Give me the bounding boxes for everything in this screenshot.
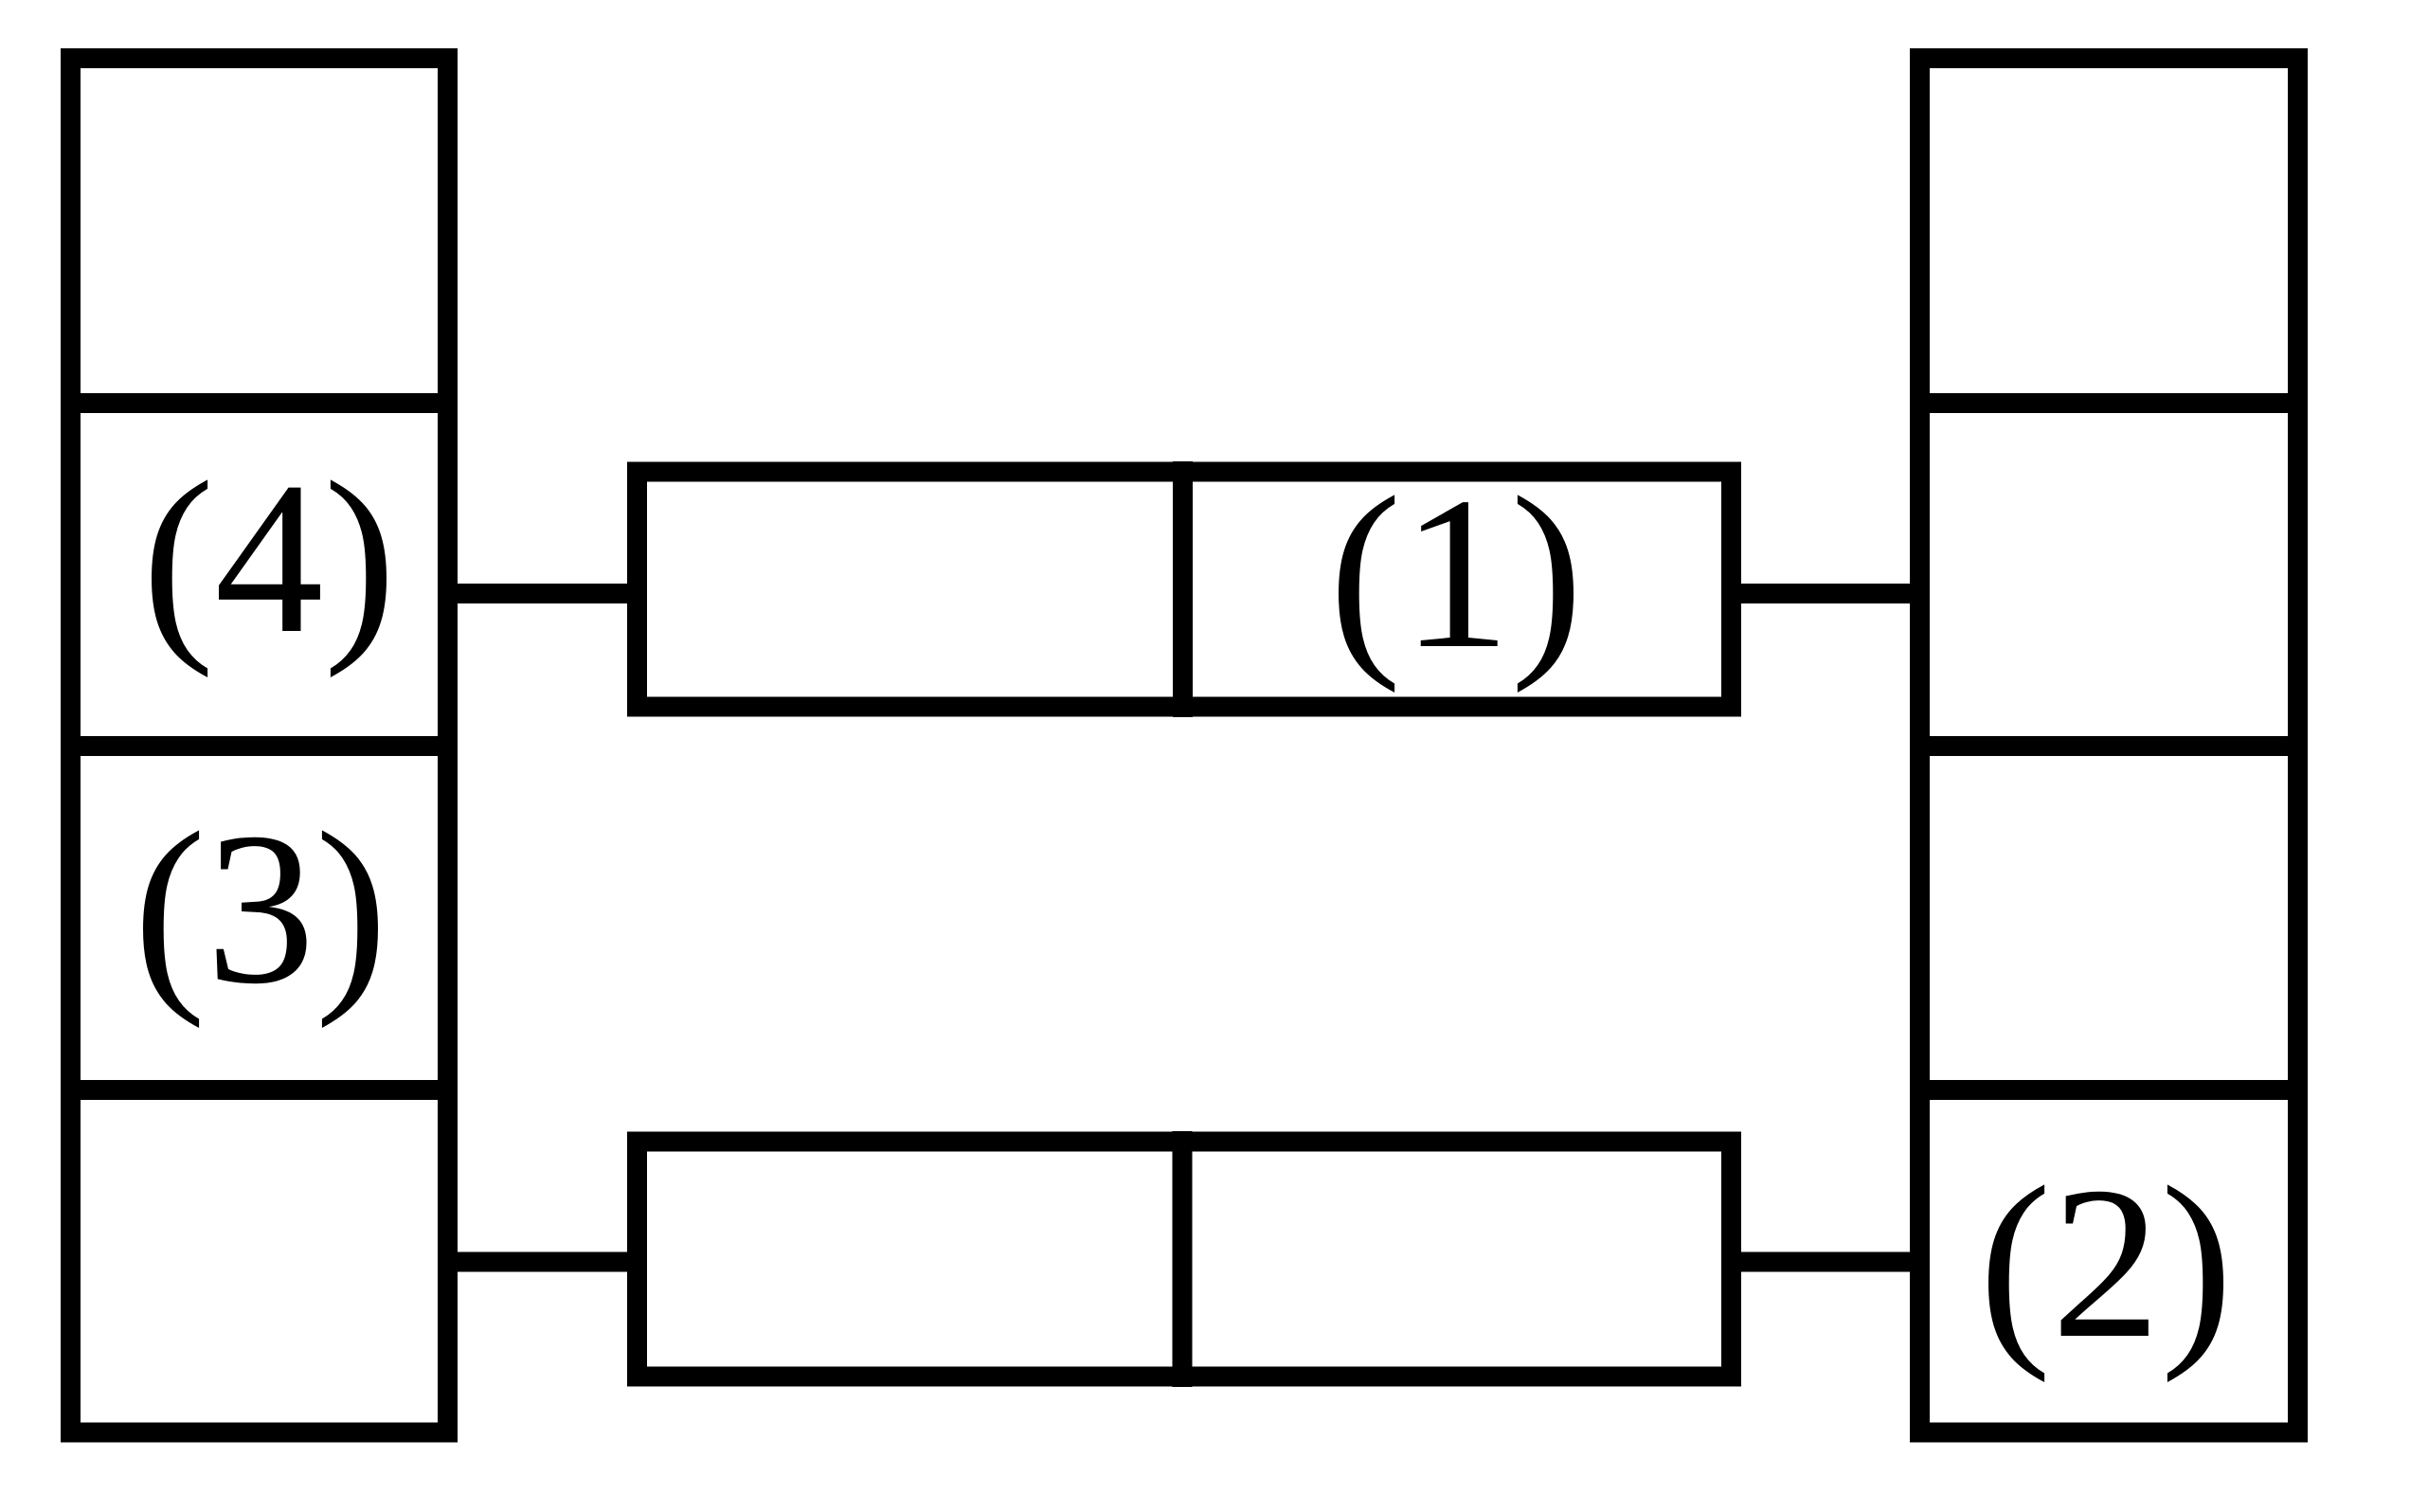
right table divider 1 xyxy=(1910,393,2308,413)
bottom middle box divider xyxy=(1173,1131,1193,1387)
right table divider 3 xyxy=(1910,1080,2308,1100)
right table divider 2 xyxy=(1910,736,2308,756)
left table divider 2 xyxy=(61,736,458,756)
left table outer frame xyxy=(71,59,448,1433)
top middle box divider xyxy=(1173,461,1193,717)
top middle box (2 cells) xyxy=(638,461,1732,717)
svg-text:(3): (3) xyxy=(134,787,387,1029)
bottom middle box (2 cells) xyxy=(638,1131,1732,1387)
wire right-bottom: bottom box to right table xyxy=(1724,1252,1920,1272)
left table divider 1 xyxy=(61,393,458,413)
wire left-top: left table to top box xyxy=(447,584,644,603)
svg-text:(1): (1) xyxy=(1329,452,1583,693)
left table divider 3 xyxy=(61,1080,458,1100)
top middle box frame xyxy=(638,472,1732,707)
bottom middle box frame xyxy=(638,1142,1732,1377)
svg-text:(4): (4) xyxy=(142,437,396,678)
wire right-top: top box to right table xyxy=(1724,584,1920,603)
svg-text:(2): (2) xyxy=(1979,1142,2233,1383)
left table (4 stacked cells) xyxy=(61,59,458,1433)
wire left-bottom: left table to bottom box xyxy=(447,1252,644,1272)
right table (4 stacked cells) xyxy=(1910,59,2308,1433)
right table outer frame xyxy=(1920,59,2298,1433)
